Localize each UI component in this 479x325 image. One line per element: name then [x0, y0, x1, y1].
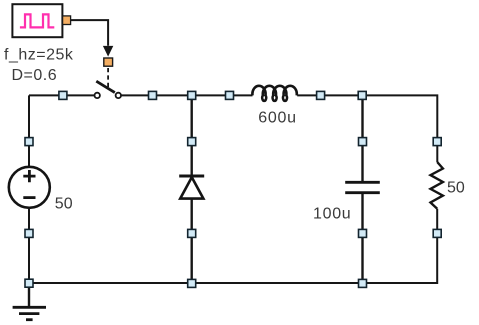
node square: resistor bottom terminal [433, 229, 441, 237]
svg-text:50: 50 [447, 179, 465, 196]
node square: switch left lead [59, 91, 67, 99]
pulse source output terminal (orange) [63, 16, 71, 25]
node square: diode cathode terminal [188, 229, 196, 237]
switch control terminal (orange) [104, 58, 113, 66]
node square: resistor top terminal [433, 138, 441, 146]
svg-text:100u: 100u [313, 205, 351, 222]
diode D1 [179, 176, 204, 199]
ground stem [28, 283, 30, 306]
svg-text:50: 50 [55, 195, 73, 212]
wire: left rail top [28, 95, 30, 166]
node square: capacitor top terminal [359, 138, 367, 146]
wire: left rail bottom [28, 208, 30, 283]
wire: capacitor branch upper [361, 95, 363, 181]
svg-text:600u: 600u [258, 109, 296, 126]
wire: left rail to switch [29, 94, 94, 96]
node square: source bottom terminal [25, 229, 33, 237]
dashed control link [107, 68, 109, 88]
node square: capacitor bottom terminal [359, 229, 367, 237]
wire: resistor to bottom-right corner and bottom bus [29, 209, 437, 283]
wire: diode branch upper [190, 95, 192, 176]
node square: ground corner junction [25, 279, 33, 287]
svg-text:f_hz=25k: f_hz=25k [4, 46, 74, 63]
wire from pulse source to switch control [71, 20, 108, 46]
wire: diode branch lower [190, 199, 192, 283]
wire: capacitor branch lower [361, 194, 363, 283]
svg-text:D=0.6: D=0.6 [12, 67, 58, 84]
node square: switch right lead [149, 91, 157, 99]
inductor L1 coil [252, 86, 296, 101]
arrowhead on control wire [103, 46, 113, 57]
resistor R1 zigzag [431, 162, 443, 209]
switch S1 [95, 81, 122, 98]
wire: top bus from switch to inductor [121, 94, 253, 96]
voltage source V1 [9, 167, 50, 208]
node square: diode bottom junction [188, 279, 196, 287]
wire: inductor to top-right corner, down right rail [297, 95, 437, 162]
node square: diode top junction [188, 91, 196, 99]
pulse source U1 box [12, 4, 62, 37]
node square: source top terminal [25, 138, 33, 146]
capacitor C1 plates [345, 182, 380, 192]
node square: diode anode terminal [188, 138, 196, 146]
node square: inductor right terminal [317, 91, 325, 99]
node square: capacitor bottom junction [359, 279, 367, 287]
node square: capacitor top junction [358, 91, 366, 99]
ground symbol [13, 307, 46, 319]
node square: inductor left terminal [226, 91, 234, 99]
